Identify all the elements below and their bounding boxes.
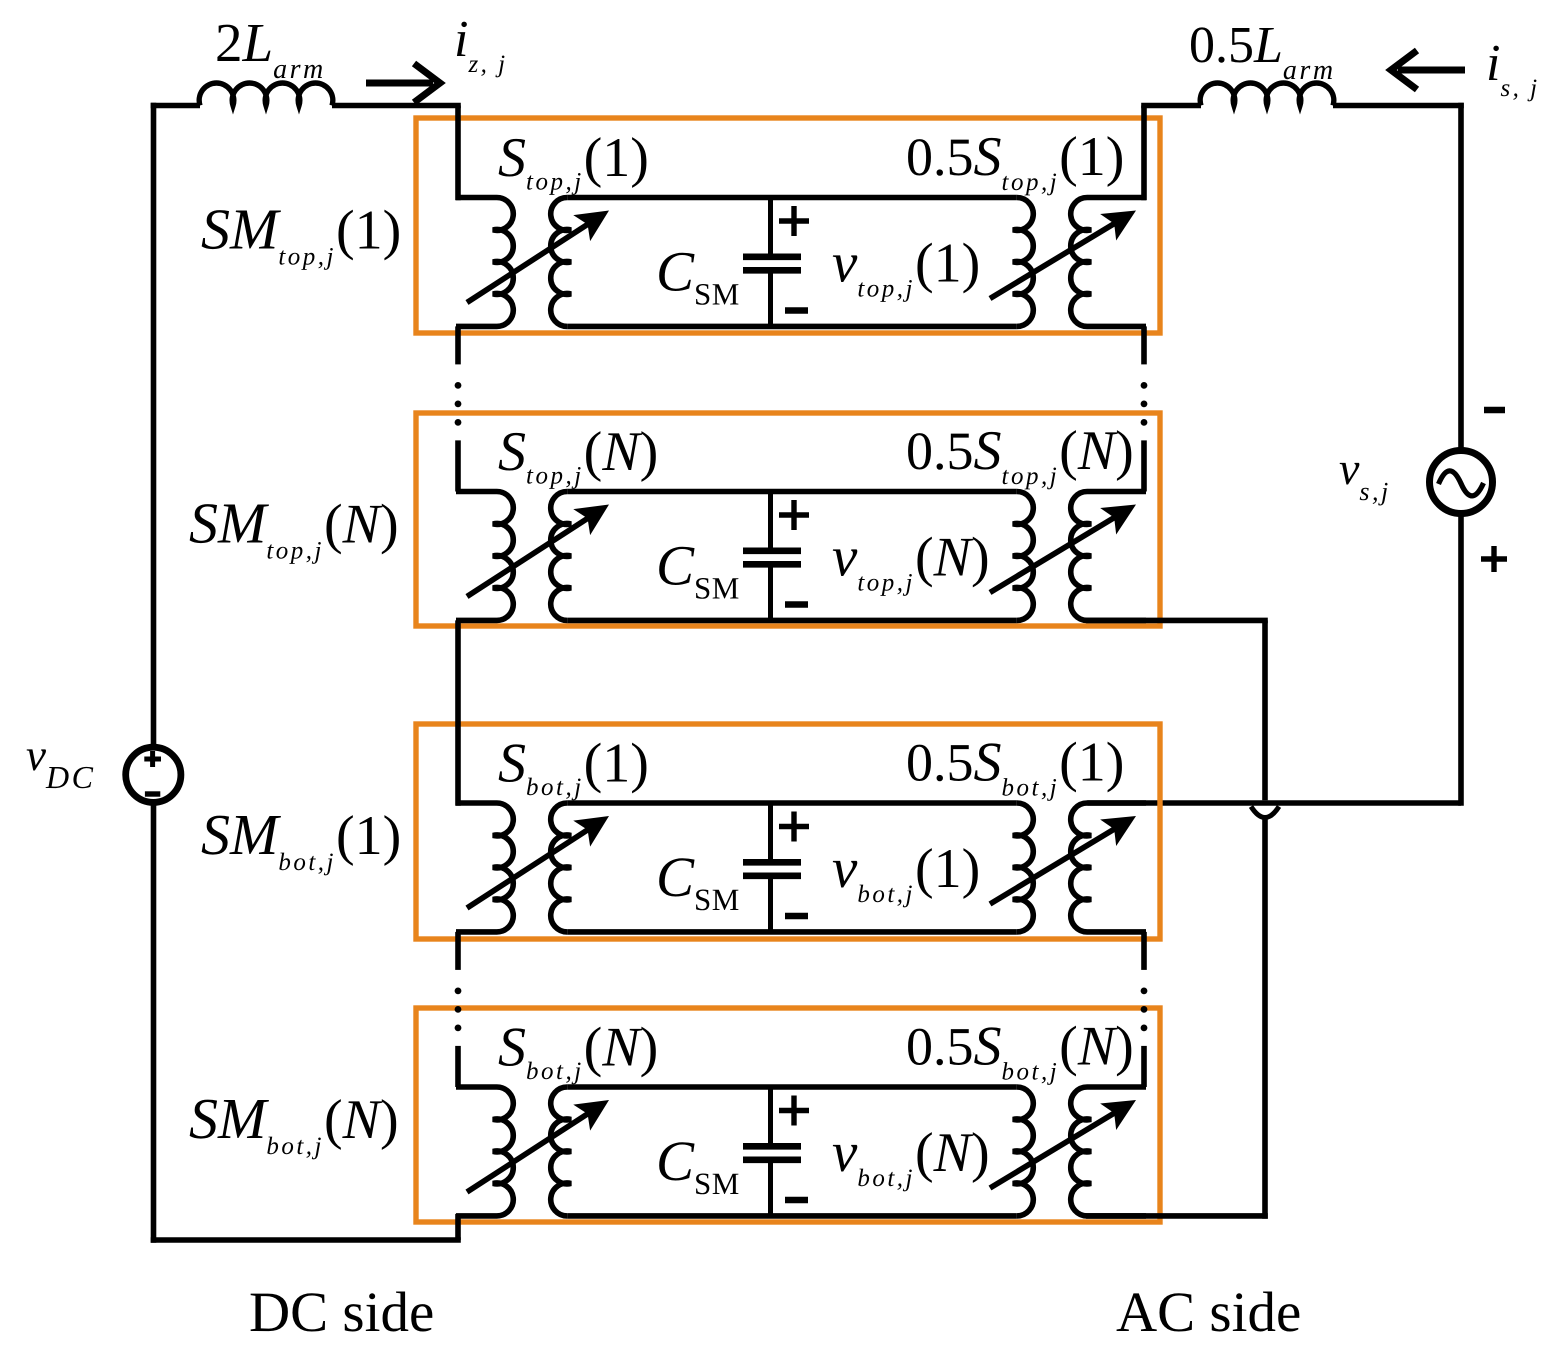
svg-text:vDC: vDC — [26, 730, 95, 795]
wire: AC top rail left — [1141, 103, 1201, 109]
label minus of C_SM SM_bot,j(1) — [785, 913, 808, 919]
svg-text:0.5Stop,j(N): 0.5Stop,j(N) — [906, 420, 1134, 490]
transformer SM_bot,j(N) secondary right winding — [1071, 1087, 1146, 1216]
transformer SM_bot,j(1) primary right winding — [551, 803, 571, 932]
transformer SM_bot,j(N) secondary left winding — [1013, 1087, 1033, 1216]
submodule box SM_top,j(1) — [416, 118, 1160, 333]
label minus of C_SM SM_top,j(1) — [785, 307, 808, 313]
wire: SM_bot,j(1) bottom rail — [567, 929, 1016, 935]
wire: SM_top,j(N) bottom-right to AC link — [1086, 618, 1268, 624]
svg-text:CSM: CSM — [656, 1130, 740, 1201]
transformer SM_bot,j(N) secondary arrow — [990, 1110, 1119, 1188]
wire: AC-side link upper — [1262, 620, 1268, 800]
capacitor C_SM of SM_bot,j(N) — [768, 1087, 773, 1144]
transformer SM_bot,j(1) secondary arrow — [990, 826, 1119, 904]
transformer SM_top,j(1) secondary left winding — [1013, 197, 1033, 326]
label plus of C_SM SM_bot,j(N) — [779, 1108, 809, 1113]
svg-text:Stop,j(N): Stop,j(N) — [498, 421, 658, 490]
transformer SM_top,j(1) secondary right winding — [1071, 197, 1146, 326]
wire: AC-side link lower — [1262, 816, 1268, 1219]
svg-text:DC side: DC side — [249, 1281, 434, 1344]
svg-text:SMtop,j(N): SMtop,j(N) — [189, 491, 399, 565]
wire: SM_top,j(1) right up — [1141, 106, 1147, 201]
wire dash-dot left SM_top(1)-SM_top(N) — [455, 326, 461, 364]
svg-text:CSM: CSM — [656, 241, 740, 312]
label plus of v_s,j — [1481, 556, 1507, 561]
wire: DC bottom rail — [151, 1237, 461, 1243]
svg-text:0.5Stop,j(1): 0.5Stop,j(1) — [906, 126, 1124, 196]
submodule box SM_bot,j(1) — [416, 724, 1160, 939]
wire: SM_bot,j(N) left down to DC bottom rail — [455, 1214, 461, 1240]
svg-text:Stop,j(1): Stop,j(1) — [498, 127, 649, 196]
capacitor C_SM of SM_top,j(1) — [768, 198, 773, 255]
label plus of C_SM SM_top,j(1) — [779, 218, 809, 223]
transformer SM_top,j(N) primary right winding — [551, 491, 571, 620]
svg-text:iz, j: iz, j — [454, 11, 508, 78]
transformer SM_top,j(1) primary left winding — [456, 197, 513, 326]
transformer SM_top,j(1) primary right winding — [551, 197, 571, 326]
wire: DC top rail to top arm — [332, 103, 461, 109]
wire dash-dot right SM_top(1)-SM_top(N) — [1141, 326, 1147, 364]
svg-text:vbot,j(N): vbot,j(N) — [832, 1121, 990, 1192]
svg-text:SMtop,j(1): SMtop,j(1) — [201, 197, 401, 271]
wire: arm link left (top arm to bottom arm) — [455, 620, 461, 805]
svg-text:CSM: CSM — [656, 535, 740, 606]
wire: SM_top,j(N) top rail — [567, 489, 1016, 495]
inductor 0.5L_arm — [1200, 83, 1334, 106]
label plus of C_SM SM_top,j(N) — [779, 512, 809, 517]
svg-text:Sbot,j(1): Sbot,j(1) — [498, 732, 649, 801]
wire: right AC bus upper — [1458, 103, 1464, 452]
transformer SM_top,j(N) primary left winding — [456, 491, 513, 620]
svg-text:CSM: CSM — [656, 846, 740, 917]
wire: left DC bus lower — [151, 805, 157, 1243]
transformer SM_top,j(N) secondary right winding — [1071, 491, 1146, 620]
svg-text:SMbot,j(1): SMbot,j(1) — [201, 802, 401, 876]
transformer SM_top,j(N) secondary arrow — [990, 515, 1119, 593]
wire: SM_bot,j(N) top rail — [567, 1084, 1016, 1090]
wire: SM_top,j(1) bottom rail — [567, 324, 1016, 330]
capacitor C_SM of SM_bot,j(1) — [768, 803, 773, 860]
svg-text:AC side: AC side — [1116, 1281, 1301, 1344]
wire: SM_top,j(1) top rail — [567, 195, 1016, 201]
inductor 2L_arm — [199, 83, 333, 106]
label plus of C_SM SM_bot,j(1) — [779, 824, 809, 829]
label minus of C_SM SM_top,j(N) — [785, 601, 808, 607]
crossover hop — [1251, 807, 1279, 818]
svg-text:Sbot,j(N): Sbot,j(N) — [498, 1016, 658, 1085]
label minus of v_s,j — [1484, 407, 1505, 413]
wire dash-dot right SM_bot(1)-SM_bot(N) — [1141, 932, 1147, 970]
transformer SM_top,j(1) primary arrow — [467, 221, 592, 302]
svg-text:SMbot,j(N): SMbot,j(N) — [189, 1086, 399, 1160]
transformer SM_top,j(N) primary arrow — [467, 515, 592, 596]
svg-text:0.5Larm: 0.5Larm — [1189, 17, 1336, 86]
svg-text:is, j: is, j — [1486, 35, 1540, 102]
transformer SM_top,j(N) secondary left winding — [1013, 491, 1033, 620]
wire: AC top rail right — [1333, 103, 1464, 109]
wire: right AC bus lower — [1458, 512, 1464, 806]
submodule box SM_top,j(N) — [416, 413, 1160, 626]
source v_DC — [126, 747, 181, 802]
source v_s,j — [1430, 451, 1493, 514]
wire: SM_bot,j(N) bottom rail — [567, 1213, 1016, 1219]
svg-text:vs,j: vs,j — [1339, 443, 1391, 506]
wire: top arm input — [455, 106, 461, 201]
transformer SM_bot,j(1) primary arrow — [467, 827, 592, 908]
wire: left DC bus upper — [151, 103, 157, 745]
wire: SM_bot,j(N) bottom-right to AC link — [1086, 1213, 1268, 1219]
svg-text:vtop,j(N): vtop,j(N) — [832, 526, 990, 597]
svg-text:vbot,j(1): vbot,j(1) — [832, 837, 980, 908]
svg-text:2Larm: 2Larm — [215, 12, 326, 85]
wire: SM_bot,j(1) top rail — [567, 800, 1016, 806]
current arrow i_z,j — [366, 80, 433, 87]
wire: DC top rail — [151, 103, 200, 109]
svg-text:0.5Sbot,j(1): 0.5Sbot,j(1) — [906, 732, 1124, 802]
wire dash-dot left SM_bot(1)-SM_bot(N) — [455, 932, 461, 970]
svg-text:vtop,j(1): vtop,j(1) — [832, 232, 980, 303]
transformer SM_bot,j(N) primary left winding — [456, 1087, 513, 1216]
transformer SM_bot,j(1) secondary left winding — [1013, 803, 1033, 932]
wire: SM_top,j(N) bottom rail — [567, 618, 1016, 624]
transformer SM_bot,j(1) secondary right winding — [1071, 803, 1146, 932]
wire: AC node rail — [1087, 800, 1461, 806]
svg-text:0.5Sbot,j(N): 0.5Sbot,j(N) — [906, 1016, 1134, 1086]
transformer SM_bot,j(N) primary right winding — [551, 1087, 571, 1216]
transformer SM_top,j(1) secondary arrow — [990, 221, 1119, 299]
transformer SM_bot,j(N) primary arrow — [467, 1111, 592, 1192]
transformer SM_bot,j(1) primary left winding — [456, 803, 513, 932]
capacitor C_SM of SM_top,j(N) — [768, 492, 773, 549]
label minus of C_SM SM_bot,j(N) — [785, 1197, 808, 1203]
current arrow i_s,j — [1398, 67, 1465, 74]
submodule box SM_bot,j(N) — [416, 1008, 1160, 1222]
